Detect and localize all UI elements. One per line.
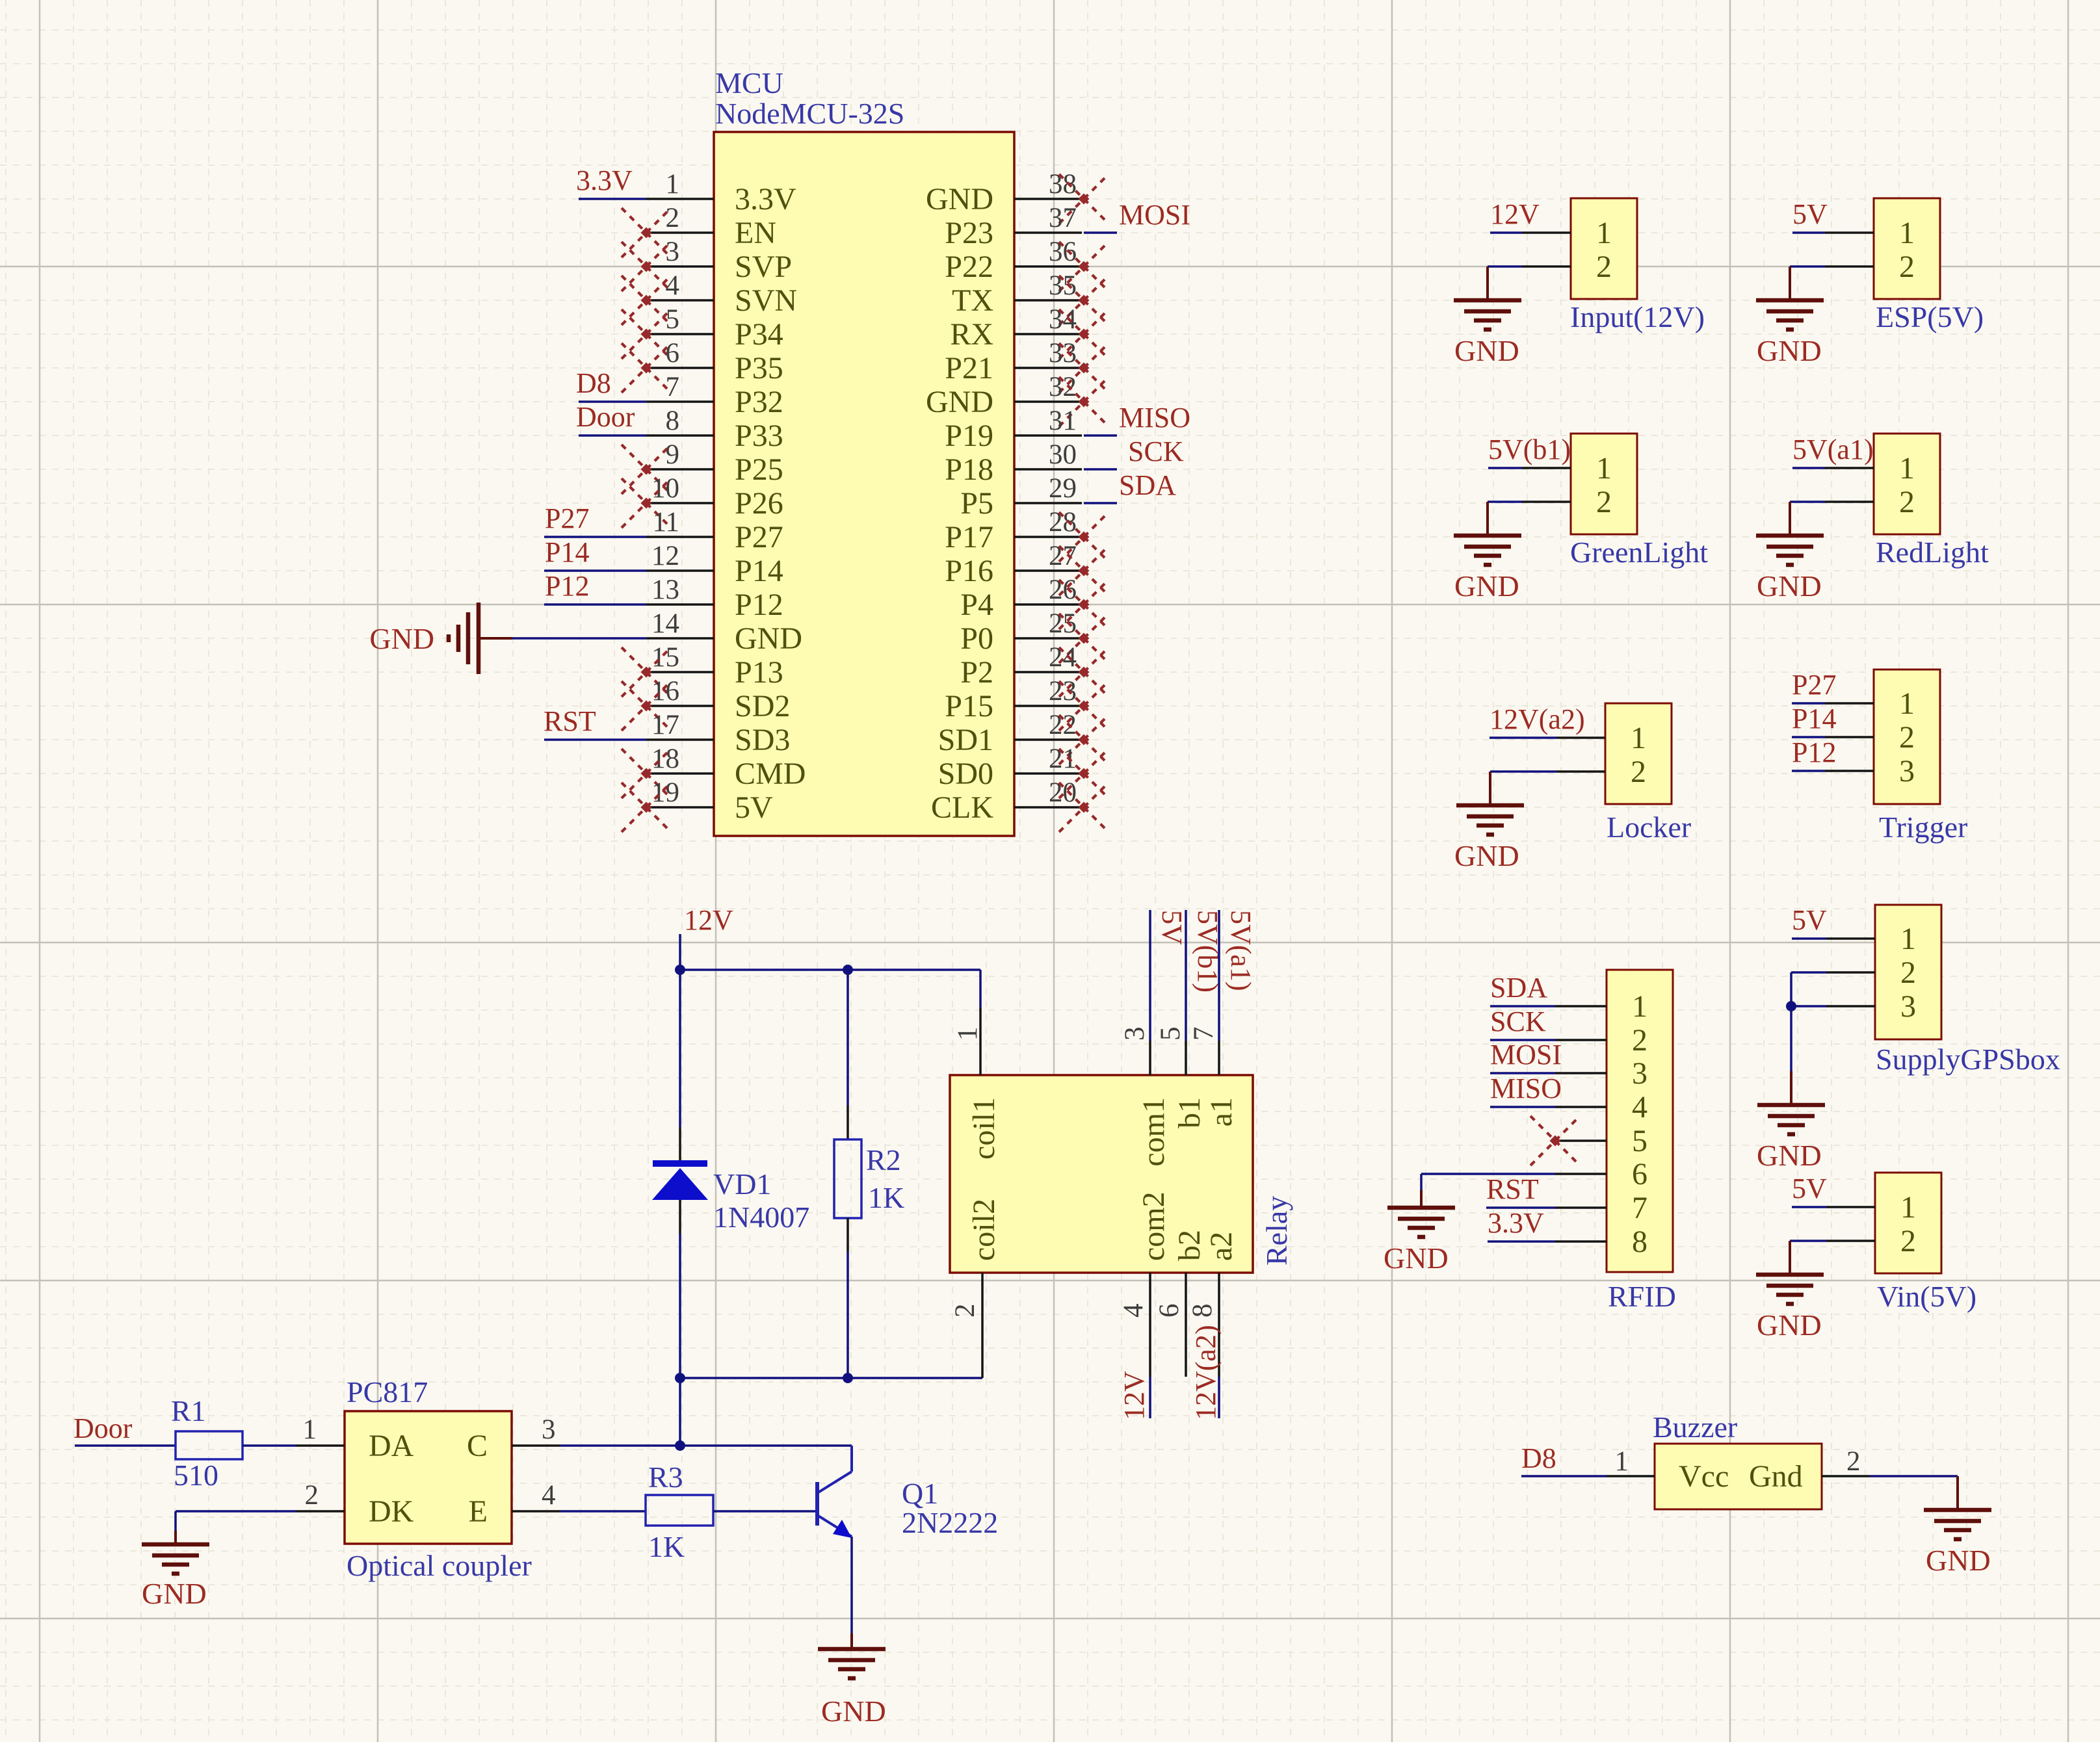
svg-text:3: 3: [1120, 1027, 1150, 1041]
net label P12 + wire (Trigger pin3): [1792, 736, 1836, 771]
svg-text:31: 31: [1049, 406, 1077, 436]
svg-text:3: 3: [542, 1414, 556, 1445]
MCU pin 12 (P14): [646, 541, 783, 588]
svg-text:21: 21: [1049, 744, 1077, 774]
MCU pin 26 (P4): [960, 575, 1082, 622]
wire SupplyGPSbox pin2 down to pin3 node: [1791, 972, 1826, 1006]
GND label below PC817 pin2: [142, 1577, 207, 1610]
svg-text:PC817: PC817: [347, 1375, 428, 1409]
net label 12V(a2) (relay pin8): [1190, 1325, 1222, 1420]
svg-text:28: 28: [1049, 507, 1077, 538]
wire Q1 emitter to ground: [850, 1537, 853, 1633]
svg-text:1: 1: [1596, 451, 1612, 486]
MCU pin 1 (3.3V): [646, 169, 796, 216]
svg-text:26: 26: [1049, 575, 1077, 605]
ground symbol below Input(12V): [1454, 266, 1521, 330]
MCU pin 17 (SD3): [646, 710, 790, 757]
ground symbol below Vin(5V): [1756, 1241, 1824, 1304]
wire R2 to collector rail: [847, 1252, 849, 1378]
svg-text:Gnd: Gnd: [1749, 1459, 1803, 1494]
GND label below GreenLight: [1454, 569, 1519, 603]
svg-text:5V: 5V: [1792, 198, 1828, 230]
svg-text:32: 32: [1049, 372, 1077, 402]
MCU pin 31 (P19): [945, 406, 1082, 453]
svg-text:2: 2: [950, 1304, 980, 1318]
svg-text:P17: P17: [945, 520, 993, 554]
PC817 pin 3 (C): [467, 1414, 560, 1463]
relay pin 2 (coil2): [950, 1273, 982, 1378]
relay pin 8 (a2): [1187, 1273, 1219, 1377]
svg-text:coil1: coil1: [967, 1097, 1001, 1160]
relay pin name com2: [1136, 1191, 1171, 1261]
svg-text:P18: P18: [945, 452, 993, 487]
GND label at MCU pin14: [369, 622, 434, 655]
wire 12V rail to R2: [847, 970, 849, 1106]
net label SDA + wire (RFID pin1): [1490, 972, 1555, 1006]
svg-text:GND: GND: [1384, 1241, 1449, 1275]
svg-text:D8: D8: [1521, 1442, 1556, 1474]
svg-text:SCK: SCK: [1128, 435, 1184, 467]
wire RedLight pin2 to ground: [1790, 500, 1825, 503]
svg-text:23: 23: [1049, 676, 1077, 707]
net label P27 + wire (MCU pin11): [544, 502, 646, 537]
label Buzzer: [1653, 1410, 1737, 1444]
no-connect X on MCU pin 33: [1059, 343, 1109, 393]
svg-text:7: 7: [1188, 1027, 1219, 1041]
wire RFID pin6 to ground: [1421, 1174, 1555, 1190]
svg-text:25: 25: [1049, 608, 1077, 639]
svg-text:1: 1: [1899, 216, 1915, 250]
wire Vin pin2 to ground: [1790, 1240, 1826, 1242]
svg-text:GND: GND: [1757, 334, 1822, 367]
value 1N4007: [713, 1201, 809, 1234]
net label MISO + wire (MCU pin31): [1084, 402, 1190, 435]
ground symbol below Locker: [1456, 772, 1524, 835]
wire R3 to Q1 base: [713, 1510, 817, 1513]
GND label below Vin(5V): [1757, 1308, 1822, 1342]
svg-text:33: 33: [1049, 338, 1077, 369]
label Relay: [1260, 1196, 1293, 1266]
svg-text:D8: D8: [576, 367, 611, 399]
net label Door + wire: [73, 1412, 176, 1446]
PC817 pin 4 (E): [469, 1480, 560, 1529]
svg-text:8: 8: [1632, 1225, 1647, 1259]
svg-text:36: 36: [1049, 237, 1077, 267]
wire relay pin3 to 5V: [1149, 910, 1151, 1041]
net label 5V(b1) + wire (GreenLight pin1): [1488, 434, 1571, 468]
wire PC817 pin2 to ground: [176, 1511, 296, 1531]
label RedLight: [1876, 536, 1989, 569]
connector ESP(5V) body: [1825, 198, 1940, 299]
svg-text:GND: GND: [1454, 839, 1519, 872]
svg-text:2: 2: [666, 203, 680, 233]
svg-text:Buzzer: Buzzer: [1653, 1410, 1737, 1444]
svg-text:a2: a2: [1204, 1232, 1239, 1261]
svg-text:27: 27: [1049, 541, 1077, 571]
svg-text:GND: GND: [142, 1577, 207, 1610]
connector SupplyGPSbox body: [1826, 905, 1941, 1039]
svg-text:com2: com2: [1136, 1191, 1171, 1261]
svg-text:18: 18: [651, 744, 679, 774]
svg-text:2: 2: [1899, 250, 1915, 284]
svg-text:3.3V: 3.3V: [576, 164, 633, 196]
svg-text:P14: P14: [1792, 703, 1836, 734]
svg-text:6: 6: [1154, 1304, 1185, 1318]
MCU designator label: [715, 66, 783, 99]
MCU pin 11 (P27): [646, 507, 783, 554]
GND label below ESP(5V): [1757, 334, 1822, 367]
wire Buzzer pin2 to ground: [1870, 1475, 1958, 1477]
svg-text:P32: P32: [735, 385, 783, 419]
ground symbol at MCU pin14: [449, 603, 512, 674]
wire relay pin4 to 12V: [1149, 1377, 1151, 1418]
svg-text:R3: R3: [648, 1461, 683, 1494]
svg-text:C: C: [467, 1429, 488, 1463]
no-connect X on MCU pin 24: [1059, 647, 1109, 697]
svg-text:15: 15: [651, 642, 679, 673]
no-connect X on MCU pin 36: [1059, 242, 1109, 291]
label Optical coupler: [347, 1549, 532, 1582]
svg-text:P33: P33: [735, 419, 783, 453]
wire VD1 anode down to collector rail: [679, 1234, 681, 1378]
wire SupplyGPSbox node to ground: [1790, 1006, 1792, 1071]
svg-text:Vcc: Vcc: [1679, 1459, 1729, 1494]
MCU pin 4 (SVN): [646, 270, 797, 318]
wire MCU pin14 to ground: [512, 637, 646, 640]
wire PC817 pin4 to R3: [560, 1510, 646, 1513]
GND label below Q1: [821, 1695, 886, 1728]
svg-text:b1: b1: [1172, 1097, 1207, 1128]
svg-text:P13: P13: [735, 655, 783, 690]
relay pin name b1: [1172, 1097, 1207, 1128]
svg-text:1K: 1K: [868, 1181, 904, 1214]
svg-text:12V: 12V: [1490, 198, 1540, 230]
svg-text:Vin(5V): Vin(5V): [1877, 1280, 1976, 1313]
svg-text:GND: GND: [1926, 1544, 1991, 1577]
svg-text:b2: b2: [1172, 1230, 1207, 1261]
svg-text:13: 13: [651, 575, 679, 605]
svg-text:6: 6: [666, 338, 680, 369]
connector Input(12V) body: [1522, 198, 1637, 299]
MCU pin 2 (EN): [646, 203, 776, 250]
MCU pin 33 (P21): [945, 338, 1082, 385]
net label 12V(a2) + wire (Locker pin1): [1490, 703, 1585, 738]
svg-text:10: 10: [651, 473, 679, 504]
svg-text:4: 4: [1632, 1090, 1647, 1124]
svg-text:3: 3: [666, 237, 680, 267]
svg-text:37: 37: [1049, 203, 1077, 233]
svg-text:MISO: MISO: [1119, 402, 1190, 434]
MCU pin 18 (CMD): [646, 744, 806, 791]
junction collector rail / VD1: [675, 1373, 685, 1383]
relay pin 1 (coil1): [952, 1007, 983, 1075]
relay pin 4 (com2): [1118, 1273, 1150, 1377]
svg-text:2: 2: [305, 1480, 319, 1511]
MCU comment NodeMCU-32S: [715, 97, 904, 130]
svg-text:8: 8: [666, 406, 680, 436]
ground symbol below Q1: [818, 1633, 886, 1678]
svg-text:7: 7: [666, 372, 680, 402]
svg-text:17: 17: [651, 710, 679, 740]
svg-text:5V: 5V: [1792, 1173, 1827, 1204]
svg-text:14: 14: [651, 608, 679, 639]
svg-text:4: 4: [1118, 1304, 1149, 1318]
MCU pin 32 (GND): [926, 372, 1082, 419]
GND label below Buzzer: [1926, 1544, 1991, 1577]
ground symbol below GreenLight: [1454, 502, 1521, 565]
junction 12V rail / VD1: [675, 965, 685, 975]
svg-text:2: 2: [1632, 1023, 1647, 1058]
svg-text:SCK: SCK: [1490, 1006, 1546, 1037]
svg-text:1K: 1K: [648, 1530, 685, 1563]
no-connect X on RFID pin5: [1530, 1116, 1580, 1165]
svg-text:12V(a2): 12V(a2): [1490, 703, 1585, 735]
PC817 pin 2 (DK): [296, 1480, 414, 1529]
no-connect X on MCU pin 20: [1059, 783, 1109, 832]
svg-text:SupplyGPSbox: SupplyGPSbox: [1876, 1043, 2060, 1076]
relay pin name a1: [1204, 1097, 1239, 1126]
relay pin name coil2: [967, 1199, 1001, 1261]
svg-text:P22: P22: [945, 250, 993, 284]
wire Input pin2 to ground: [1488, 265, 1522, 268]
svg-text:1: 1: [1631, 721, 1646, 755]
svg-text:CLK: CLK: [931, 790, 993, 825]
no-connect X on MCU pin 16: [622, 681, 671, 731]
svg-text:12V: 12V: [684, 904, 733, 936]
wire 12V rail to VD1 cathode: [679, 970, 681, 1127]
svg-text:5: 5: [666, 304, 680, 335]
wire relay pin7 to 5V(a1): [1218, 910, 1220, 1041]
net label 5V + wire (Vin pin1): [1792, 1173, 1827, 1207]
svg-text:34: 34: [1049, 304, 1077, 335]
label R2: [866, 1143, 901, 1176]
svg-text:1: 1: [952, 1027, 983, 1041]
svg-text:5V: 5V: [1156, 910, 1188, 945]
svg-text:3: 3: [1900, 989, 1916, 1024]
svg-text:2: 2: [1596, 485, 1612, 519]
svg-text:29: 29: [1049, 473, 1077, 504]
MCU pin 13 (P12): [646, 575, 783, 622]
svg-text:P35: P35: [735, 351, 783, 385]
svg-text:16: 16: [651, 676, 679, 707]
svg-text:11: 11: [653, 507, 679, 538]
net label P27 + wire (Trigger pin1): [1792, 669, 1836, 703]
svg-text:MISO: MISO: [1490, 1072, 1562, 1104]
MCU pin 7 (P32): [646, 372, 783, 419]
net label 12V (relay pin4): [1118, 1371, 1150, 1420]
GND label below RedLight: [1757, 569, 1822, 603]
junction at SupplyGPSbox pin3 node: [1786, 1001, 1796, 1011]
ground symbol at RFID pin6: [1387, 1190, 1455, 1237]
MCU pin 15 (P13): [646, 642, 783, 690]
connector RFID body: [1555, 970, 1673, 1272]
wire 12V rail horizontal: [680, 968, 980, 971]
net label D8 + wire (MCU pin7): [576, 367, 646, 402]
no-connect X on MCU pin 18: [622, 749, 671, 798]
svg-text:Optical coupler: Optical coupler: [347, 1549, 532, 1582]
relay pin 5 (b1): [1155, 1027, 1186, 1076]
svg-text:P27: P27: [735, 520, 783, 554]
wire collector rail horizontal: [680, 1377, 982, 1379]
relay K1 body: [950, 1075, 1253, 1273]
relay pin 7 (a1): [1188, 1027, 1219, 1076]
value 510 (R1): [174, 1459, 218, 1492]
no-connect X on MCU pin 23: [1059, 681, 1109, 731]
wire VD1 branch down to optocoupler output: [679, 1378, 681, 1446]
MCU pin 6 (P35): [646, 338, 783, 385]
no-connect X on MCU pin 26: [1059, 580, 1109, 629]
MCU pin 38 (GND): [926, 169, 1082, 216]
svg-text:RST: RST: [1486, 1173, 1539, 1205]
svg-text:DK: DK: [369, 1494, 414, 1529]
svg-text:7: 7: [1632, 1191, 1647, 1225]
no-connect X on MCU pin 6: [622, 343, 671, 393]
svg-text:VD1: VD1: [713, 1167, 771, 1201]
svg-text:GND: GND: [1454, 334, 1519, 367]
svg-text:4: 4: [666, 270, 680, 301]
net label SDA + wire (MCU pin29): [1084, 469, 1176, 503]
value 1K (R2): [868, 1181, 904, 1214]
net label SCK + wire (RFID pin2): [1490, 1006, 1555, 1040]
net label RST + wire (RFID pin7): [1486, 1173, 1555, 1208]
svg-text:GND: GND: [735, 621, 802, 656]
svg-text:P25: P25: [735, 452, 783, 487]
svg-text:P21: P21: [945, 351, 993, 385]
svg-text:P16: P16: [945, 554, 993, 588]
net label 5V (relay pin3): [1156, 910, 1188, 945]
svg-text:SD3: SD3: [735, 723, 790, 757]
MCU pin 8 (P33): [646, 406, 783, 453]
no-connect X on MCU pin 22: [1059, 715, 1109, 764]
label ESP(5V): [1876, 300, 1984, 333]
net label 12V (rail): [684, 904, 733, 936]
svg-text:2: 2: [1631, 755, 1646, 789]
svg-text:1: 1: [1899, 451, 1915, 486]
no-connect X on MCU pin 34: [1059, 309, 1109, 359]
svg-text:3: 3: [1632, 1056, 1647, 1091]
MCU pin 28 (P17): [945, 507, 1082, 554]
svg-text:GND: GND: [821, 1695, 886, 1728]
wire SupplyGPSbox pin3: [1791, 1005, 1826, 1007]
svg-text:5V(a1): 5V(a1): [1792, 434, 1874, 465]
label Q1: [902, 1477, 938, 1510]
MCU pin 5 (P34): [646, 304, 783, 352]
MCU pin 24 (P2): [960, 642, 1082, 690]
label VD1: [713, 1167, 771, 1201]
connector RedLight body: [1825, 434, 1940, 534]
net label MOSI + wire (RFID pin3): [1490, 1039, 1562, 1073]
svg-text:P2: P2: [960, 655, 993, 690]
svg-text:EN: EN: [735, 216, 776, 250]
svg-text:SD0: SD0: [938, 757, 993, 791]
svg-text:com1: com1: [1136, 1097, 1171, 1167]
resistor R3: [646, 1495, 713, 1526]
svg-text:RFID: RFID: [1608, 1280, 1676, 1313]
svg-text:P14: P14: [735, 554, 783, 588]
svg-text:12: 12: [651, 541, 679, 571]
label RFID: [1608, 1280, 1676, 1313]
svg-text:38: 38: [1049, 169, 1077, 200]
net label P12 + wire (MCU pin13): [544, 570, 646, 604]
svg-text:RST: RST: [544, 705, 596, 737]
MCU pin 22 (SD1): [938, 710, 1082, 757]
svg-text:1: 1: [666, 169, 680, 200]
relay pin name a2: [1204, 1232, 1239, 1261]
svg-text:GND: GND: [1757, 1308, 1822, 1342]
svg-text:SDA: SDA: [1119, 469, 1176, 501]
svg-text:Relay: Relay: [1260, 1196, 1293, 1266]
svg-text:RX: RX: [950, 317, 993, 352]
net label MISO + wire (RFID pin4): [1490, 1072, 1562, 1107]
relay pin name coil1: [967, 1097, 1001, 1160]
svg-text:1N4007: 1N4007: [713, 1201, 809, 1234]
svg-text:SD1: SD1: [938, 723, 993, 757]
svg-text:E: E: [469, 1494, 488, 1529]
svg-text:GND: GND: [926, 385, 993, 419]
svg-text:Q1: Q1: [902, 1477, 938, 1510]
junction collector rail / R2: [843, 1373, 853, 1383]
svg-text:R2: R2: [866, 1143, 901, 1176]
MCU pin 27 (P16): [945, 541, 1082, 588]
net label MOSI + wire (MCU pin37): [1084, 199, 1190, 233]
svg-text:SVP: SVP: [735, 250, 792, 284]
wire rail corner down to relay pin1: [979, 970, 982, 1007]
svg-text:22: 22: [1049, 710, 1077, 740]
connector Locker body: [1556, 703, 1672, 804]
connector Trigger body: [1825, 669, 1940, 804]
net label P14 + wire (MCU pin12): [544, 536, 646, 571]
svg-text:a1: a1: [1204, 1097, 1239, 1126]
svg-text:5V(a1): 5V(a1): [1225, 910, 1257, 991]
svg-text:1: 1: [1615, 1446, 1629, 1477]
wire R1 to PC817 pin1: [243, 1444, 296, 1447]
svg-text:GreenLight: GreenLight: [1570, 536, 1708, 569]
MCU pin 16 (SD2): [646, 676, 790, 723]
svg-text:SDA: SDA: [1490, 972, 1547, 1004]
label PC817: [347, 1375, 428, 1409]
svg-text:24: 24: [1049, 642, 1077, 673]
relay pin 6 (b2): [1154, 1273, 1186, 1377]
svg-text:2: 2: [1900, 1224, 1916, 1258]
svg-text:MOSI: MOSI: [1490, 1039, 1562, 1071]
net label Door + wire (MCU pin8): [576, 401, 646, 435]
svg-text:CMD: CMD: [735, 757, 806, 791]
MCU pin 9 (P25): [646, 439, 783, 487]
MCU pin 29 (P5): [960, 473, 1082, 521]
MCU pin 21 (SD0): [938, 744, 1082, 791]
svg-text:Locker: Locker: [1607, 811, 1691, 844]
svg-text:12V(a2): 12V(a2): [1190, 1325, 1222, 1420]
no-connect X on MCU pin 3: [622, 242, 671, 291]
net label 5V(a1) (relay pin7): [1225, 910, 1257, 991]
MCU pin 35 (TX): [952, 270, 1082, 318]
net label 5V(b1) (relay pin5): [1192, 910, 1224, 993]
net label 5V + wire (SupplyGPSbox pin1): [1792, 904, 1827, 939]
svg-text:1: 1: [1596, 216, 1612, 250]
svg-text:5: 5: [1632, 1124, 1647, 1158]
diode VD1 1N4007: [652, 1127, 708, 1234]
MCU pin 37 (P23): [945, 203, 1082, 250]
svg-text:5: 5: [1155, 1027, 1186, 1041]
svg-text:DA: DA: [369, 1429, 414, 1463]
GND label below SupplyGPSbox: [1757, 1139, 1822, 1172]
label Input(12V): [1570, 300, 1705, 333]
no-connect X on MCU pin 10: [622, 478, 671, 528]
svg-text:P27: P27: [545, 502, 589, 534]
net label 5V + wire (ESP pin1): [1792, 198, 1828, 233]
svg-text:GND: GND: [1454, 569, 1519, 603]
MCU pin 25 (P0): [960, 608, 1082, 656]
